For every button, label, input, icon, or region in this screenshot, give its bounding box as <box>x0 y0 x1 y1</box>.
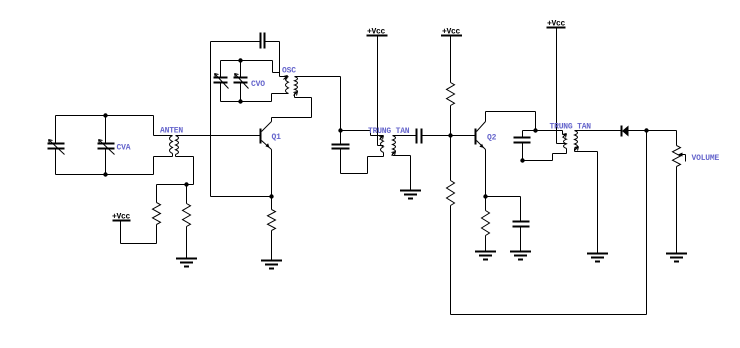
svg-text:+Vcc: +Vcc <box>442 28 461 37</box>
resistor R5 (Q2 lower bias) <box>447 181 455 206</box>
node dot detector junction <box>644 128 648 132</box>
capacitor C5 (coupling) <box>417 129 422 144</box>
ground G7 <box>666 254 687 262</box>
wire R2 bottom to ground <box>186 227 188 259</box>
capacitor C3 (variable, left of CVO) <box>214 61 229 102</box>
wire collector junction to C7 <box>523 131 536 138</box>
wire bias node to R1 <box>156 185 158 203</box>
wire oscillator loop bottom <box>211 196 272 198</box>
ground G1 <box>176 259 197 267</box>
node dot CVO bottom <box>238 99 242 103</box>
power +Vcc symbol (above R4) <box>441 35 462 37</box>
wire CVO box bottom <box>221 94 289 102</box>
wire T4 secondary to diode <box>575 130 622 132</box>
power +Vcc symbol (above T3) <box>367 35 388 37</box>
transformer T1 ANTEN primary winding <box>170 136 173 154</box>
wire top of antenna tank <box>56 115 154 117</box>
wire emitter junction to C6 <box>486 197 521 222</box>
wire oscillator loop left side <box>210 42 212 197</box>
arrow mark T4 secondary <box>575 147 579 151</box>
wire bottom of antenna tank <box>56 174 154 176</box>
transistor Q2 <box>476 122 486 150</box>
wire C5 to Q2 base <box>423 135 475 137</box>
wire C7 bottom to T4 primary bottom <box>523 143 567 161</box>
wire R3 to ground <box>271 231 273 261</box>
transformer T4 TRUNG TAN primary winding <box>564 135 567 149</box>
wire base node to R5 <box>450 136 452 181</box>
transformer T2 OSC secondary winding <box>295 77 298 94</box>
ground G2 <box>261 261 282 269</box>
svg-text:Q2: Q2 <box>487 134 497 143</box>
node dot Q2 emitter junction <box>483 194 487 198</box>
resistor R2 (base bias to ground) <box>183 204 191 227</box>
wire +Vcc to R4 <box>450 36 452 83</box>
capacitor CVO (variable cap) <box>234 61 249 102</box>
wire Q2 collector up and over <box>486 112 536 131</box>
svg-text:TRUNG TAN: TRUNG TAN <box>368 127 410 136</box>
wire R5 to bottom rail <box>450 206 452 315</box>
transformer T1 ANTEN secondary winding <box>176 136 179 155</box>
capacitor C2 (oscillator feedback cap) <box>211 33 280 49</box>
node dot CVA bottom <box>103 172 107 176</box>
svg-text:+Vcc: +Vcc <box>547 20 566 29</box>
wire collector junction to T4 primary top <box>536 131 567 135</box>
wire transformer primary bottom return <box>154 154 173 175</box>
resistor R1 (base bias to Vcc) <box>153 203 161 225</box>
resistor R6 (Q2 emitter) <box>482 211 490 236</box>
ground G5 <box>510 252 531 260</box>
ground G6 <box>587 254 608 262</box>
wire T3 secondary bottom to ground <box>393 154 411 191</box>
node dot CVO top <box>238 58 242 62</box>
svg-text:CVO: CVO <box>251 80 265 89</box>
wire C6 to ground <box>520 227 522 252</box>
wire Q2 emitter down <box>485 150 487 197</box>
wire CVO box top <box>221 60 273 62</box>
svg-text:Q1: Q1 <box>272 133 282 142</box>
node dot Q2 base junction <box>448 133 452 137</box>
wire T3 secondary to coupling cap <box>393 135 416 137</box>
svg-text:+Vcc: +Vcc <box>367 28 386 37</box>
wire Q1 emitter down <box>271 150 273 197</box>
arrow mark T3 primary <box>380 136 384 140</box>
transformer T4 TRUNG TAN secondary winding <box>575 131 578 149</box>
wire +Vcc stem to T3 primary tap <box>378 36 384 146</box>
resistor R3 (Q1 emitter) <box>268 210 276 231</box>
ground G3 <box>400 191 421 199</box>
wire OSC secondary bottom to Q1 collector <box>272 94 312 122</box>
arrow mark OSC secondary <box>294 92 298 96</box>
transformer T3 TRUNG TAN secondary winding <box>393 136 396 154</box>
wire emitter junction to R3 <box>271 197 273 210</box>
wire T1 secondary bottom to bias node <box>176 155 194 185</box>
wire R1 bottom to +Vcc <box>121 221 157 244</box>
svg-text:+Vcc: +Vcc <box>112 213 131 222</box>
transistor Q1 <box>261 122 272 150</box>
diode D1 (detector) <box>622 126 629 137</box>
arrow mark T3 secondary <box>392 152 396 156</box>
wire OSC secondary top to IF junction <box>295 77 341 131</box>
node dot CVA top <box>103 113 107 117</box>
node dot Q2 collector junction <box>533 128 537 132</box>
ground G4 <box>475 252 496 260</box>
wire VOLUME to ground <box>676 167 678 254</box>
node dot IF junction <box>338 128 342 132</box>
svg-text:ANTEN: ANTEN <box>160 127 183 136</box>
capacitor CVA (variable cap) <box>98 116 115 175</box>
transformer T2 OSC primary winding <box>286 77 289 94</box>
node dot Q1 emitter junction <box>269 194 273 198</box>
wire R4 to base node <box>450 106 452 136</box>
capacitor C1 (left variable cap) <box>48 116 65 175</box>
arrow mark T4 primary <box>563 134 567 138</box>
wire junction to VOLUME pot <box>647 131 677 146</box>
power +Vcc symbol (above T4) <box>547 27 566 29</box>
wire diode to junction <box>629 130 647 132</box>
wire +Vcc stem to T4 primary tap <box>557 28 567 144</box>
wire CVO box right riser <box>273 61 280 73</box>
wire emitter junction to R6 <box>485 197 487 211</box>
node A bias junction dot <box>184 182 188 186</box>
wire bias node horizontal <box>157 184 194 186</box>
svg-text:CVA: CVA <box>117 144 131 153</box>
wire T4 secondary bottom to ground <box>575 149 598 254</box>
wire tank to transformer primary <box>154 116 173 136</box>
resistor VOLUME (potentiometer) <box>673 146 686 167</box>
wire R6 to ground <box>485 236 487 252</box>
wire T3 primary bottom <box>368 153 384 157</box>
svg-text:OSC: OSC <box>282 67 296 76</box>
wire bias node to R2 <box>186 185 188 204</box>
transformer T3 TRUNG TAN primary winding <box>381 136 384 153</box>
node dot C7 bottom <box>520 158 524 162</box>
svg-text:TRUNG TAN: TRUNG TAN <box>550 123 592 132</box>
svg-text:VOLUME: VOLUME <box>692 154 720 163</box>
resistor R4 (Q2 upper bias) <box>447 83 455 106</box>
arrow mark OSC primary <box>284 76 288 80</box>
wire IF junction to T3 primary top <box>341 131 384 136</box>
capacitor C4 (junction to tank bottom) <box>332 131 350 174</box>
wire C2 right down to OSC coil top <box>280 42 288 77</box>
capacitor C6 (emitter bypass) <box>513 222 530 227</box>
wire C4 bottom to T3 primary bottom <box>341 157 368 174</box>
wire bottom feedback rail <box>451 131 647 315</box>
wire Q1 base <box>176 135 260 137</box>
power +Vcc symbol (bottom left) <box>113 220 131 222</box>
capacitor C7 (across T4 primary) <box>514 138 531 143</box>
